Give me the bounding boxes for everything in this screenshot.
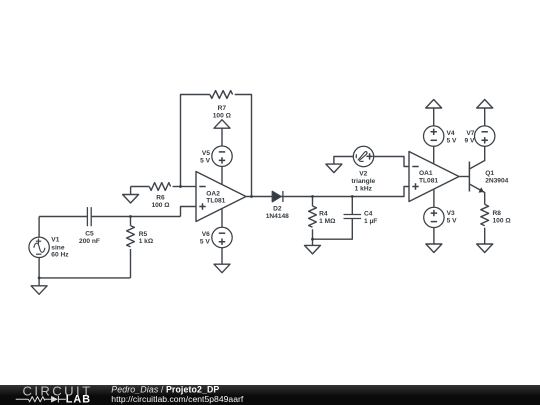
logo resistor zigzag — [28, 397, 44, 402]
svg-text:V7: V7 — [466, 130, 474, 137]
junction node B at R6 and feedback — [179, 185, 182, 188]
op-amp OA1 — [409, 152, 459, 202]
resistor R6 — [149, 183, 170, 191]
ground under V3 — [426, 244, 442, 253]
svg-text:5 V: 5 V — [447, 218, 457, 225]
wire bottom rail — [39, 277, 130, 279]
svg-text:1N4148: 1N4148 — [266, 213, 289, 220]
wire OA1 output to Q1 base — [459, 176, 469, 178]
wire node B to OA2 inverting input — [181, 186, 197, 188]
svg-text:60 Hz: 60 Hz — [51, 252, 69, 259]
voltage source V2 triangle — [353, 146, 373, 166]
ground under R8 — [477, 244, 493, 253]
wire R6 to node B — [173, 186, 181, 188]
wire C5 to node A — [91, 216, 130, 218]
svg-text:LAB: LAB — [66, 394, 91, 405]
wire node A to step — [131, 216, 181, 218]
resistor R4 — [309, 206, 317, 227]
wire OA1 positive supply pin to V4 — [433, 146, 435, 164]
wire OA2 negative supply pin to V6 — [221, 209, 223, 228]
resistor R7 — [210, 91, 233, 99]
svg-text:triangle: triangle — [351, 178, 375, 185]
svg-text:2N3904: 2N3904 — [485, 178, 508, 185]
svg-text:TL081: TL081 — [419, 177, 438, 184]
op-amp OA2 — [196, 172, 246, 222]
wire V3 to ground — [433, 228, 435, 244]
svg-text:1 MΩ: 1 MΩ — [319, 218, 336, 225]
svg-text:V4: V4 — [447, 130, 455, 137]
ground under V1 — [38, 278, 40, 286]
footer bar — [0, 385, 540, 405]
wire V1 top lead — [38, 217, 40, 238]
junction node at R4 bottom rail — [311, 238, 314, 241]
wire ground corner to R6 — [131, 186, 150, 188]
svg-text:Q1: Q1 — [485, 170, 494, 177]
junction node at R4 top — [311, 195, 314, 198]
resistor R5 — [127, 226, 135, 247]
svg-text:100 Ω: 100 Ω — [213, 113, 232, 120]
svg-text:V3: V3 — [447, 210, 455, 217]
up arrow terminal above V4 — [433, 108, 435, 126]
wire V1 to C5 — [39, 216, 87, 218]
svg-text:R5: R5 — [139, 231, 148, 238]
wire V6 to ground — [221, 248, 223, 265]
wire V1 bottom lead — [38, 258, 40, 278]
svg-text:D2: D2 — [273, 206, 282, 213]
svg-text:1 µF: 1 µF — [364, 218, 377, 225]
svg-text:http://circuitlab.com/cent5p84: http://circuitlab.com/cent5p849aarf — [111, 394, 244, 404]
svg-text:TL081: TL081 — [206, 198, 225, 205]
wire V5 to OA2 positive supply pin — [221, 166, 223, 184]
wire feedback riser — [181, 95, 210, 187]
logo schematic squiggle wire — [16, 396, 66, 403]
wire OA2 output to D2 and OA1 step — [246, 187, 409, 197]
wire OA1 negative supply pin to V3 — [433, 189, 435, 207]
voltage source V3 — [424, 207, 444, 227]
junction node at C4 top — [351, 195, 354, 198]
voltage source V1 sine — [29, 237, 49, 257]
svg-text:R8: R8 — [493, 210, 502, 217]
svg-text:C4: C4 — [364, 210, 373, 217]
logo diode — [51, 396, 58, 403]
wire R4 top lead — [312, 197, 314, 207]
svg-text:5 V: 5 V — [447, 138, 457, 145]
wire rail R4 to C4 — [313, 219, 353, 240]
voltage source V5 — [212, 146, 232, 166]
wire R8 bottom lead — [484, 228, 486, 244]
capacitor C5 — [87, 207, 91, 226]
diode D2 — [272, 191, 281, 202]
wire R4 bottom lead — [312, 229, 314, 239]
svg-text:200 nF: 200 nF — [79, 238, 100, 245]
svg-text:V1: V1 — [51, 237, 59, 244]
ground under V6 — [214, 264, 230, 273]
svg-text:5 V: 5 V — [200, 239, 210, 246]
up arrow terminal above V7 — [484, 108, 486, 126]
junction node at V1 bottom rail — [38, 277, 41, 280]
wire V2 to OA1 inverting input — [374, 157, 409, 167]
svg-text:C5: C5 — [85, 231, 94, 238]
ground left of R6 — [130, 187, 132, 195]
svg-text:V6: V6 — [202, 231, 210, 238]
capacitor C4 — [344, 215, 362, 219]
svg-text:V5: V5 — [202, 150, 210, 157]
voltage source V6 — [212, 227, 232, 247]
wire step to OA2 noninverting input — [181, 207, 197, 217]
wire R5 top lead — [130, 217, 132, 226]
svg-text:1 kHz: 1 kHz — [355, 186, 373, 193]
wire C4 top lead — [351, 197, 353, 215]
svg-text:1 kΩ: 1 kΩ — [139, 238, 154, 245]
voltage source V7 — [475, 126, 495, 146]
svg-text:9 V: 9 V — [464, 138, 474, 145]
wire R7 to output column — [235, 95, 252, 197]
svg-text:OA2: OA2 — [206, 190, 220, 197]
svg-text:R4: R4 — [319, 210, 328, 217]
resistor R8 — [481, 204, 489, 225]
up arrow terminal above V5 — [221, 128, 223, 146]
svg-text:sine: sine — [51, 244, 65, 251]
svg-text:R7: R7 — [218, 105, 227, 112]
svg-text:5 V: 5 V — [200, 157, 210, 164]
svg-text:R6: R6 — [156, 195, 165, 202]
wire V2 left lead to ground corner — [334, 157, 353, 165]
junction node at OA2 output — [250, 195, 253, 198]
transistor Q1 — [468, 162, 470, 192]
svg-text:V2: V2 — [359, 171, 367, 178]
svg-text:100 Ω: 100 Ω — [151, 202, 170, 209]
junction node A at R5 top — [129, 215, 132, 218]
voltage source V4 — [424, 126, 444, 146]
svg-text:OA1: OA1 — [419, 170, 433, 177]
ground under R4 — [312, 239, 314, 245]
ground left of V2 — [326, 164, 342, 173]
svg-text:100 Ω: 100 Ω — [493, 218, 512, 225]
wire R5 bottom lead — [130, 249, 132, 278]
